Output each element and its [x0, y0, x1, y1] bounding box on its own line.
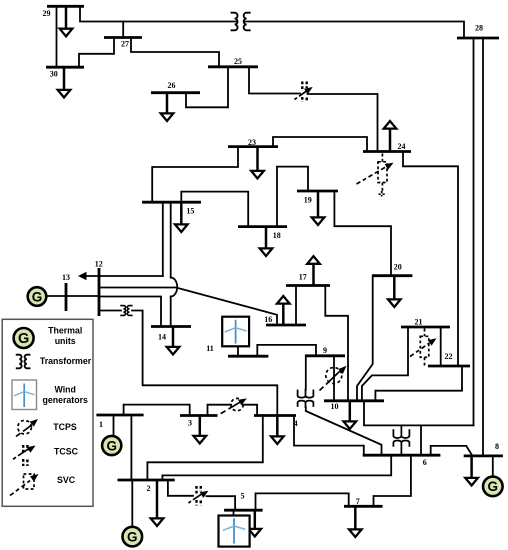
wire bus 8 to generator: [492, 456, 494, 476]
wire line 25-27: [131, 38, 219, 67]
load arrow shaft bus 23: [256, 147, 259, 171]
TCPS on line 3-4: [221, 398, 247, 413]
svg-text:SVC: SVC: [57, 475, 76, 485]
svg-text:20: 20: [394, 263, 402, 272]
load arrow shaft bus 19: [317, 191, 320, 218]
svg-text:G: G: [18, 331, 29, 347]
wire line 6-7: [374, 455, 411, 506]
load arrow shaft bus 14: [172, 327, 175, 348]
bus bar 27: [104, 36, 142, 39]
svg-text:21: 21: [415, 318, 423, 327]
load arrowhead bus 18: [260, 248, 273, 256]
svg-text:26: 26: [168, 81, 176, 90]
legend thermal generator symbol: [14, 328, 34, 348]
bus bar 29: [47, 5, 84, 8]
svg-text:7: 7: [356, 497, 360, 506]
wire line 14-15 upper segment: [170, 202, 172, 277]
wire line 2-5 left segment to TCSC: [168, 480, 193, 496]
load arrow shaft bus 20: [393, 276, 396, 300]
svg-text:G: G: [488, 479, 499, 494]
wire line 24-25 right segment to bus 24: [308, 94, 378, 152]
legend SVC symbol: [10, 474, 39, 496]
wire line 24-22: [403, 152, 458, 367]
load arrowhead bus 23: [251, 171, 264, 179]
wire line 6-28 feeder: [473, 38, 475, 425]
wire line 9-10 through TCPS: [333, 356, 335, 401]
load arrow shaft bus 5: [254, 510, 257, 529]
wire line 23-15: [152, 147, 238, 203]
svg-text:11: 11: [206, 344, 214, 353]
svg-text:6: 6: [423, 458, 427, 467]
load arrow shaft bus 30: [63, 67, 66, 90]
TCSC on line 24-25: [295, 82, 313, 103]
wire bus 5 stem to wind generator box: [233, 510, 235, 515]
wire line 27-28 left segment to transformer: [123, 21, 236, 23]
wind generator box at bus 5: [219, 516, 250, 547]
bus bar 13 vertical: [65, 283, 68, 311]
legend TCPS symbol: [16, 419, 38, 437]
load arrowhead bus 8: [465, 478, 478, 486]
load arrow shaft bus 29: [65, 6, 68, 29]
wire crossing hop arc on line 14-15: [171, 278, 178, 297]
load arrowhead bus 19: [312, 217, 325, 225]
wire line 27-28 right segment to bus 28: [244, 22, 464, 39]
svg-text:17: 17: [299, 273, 307, 282]
svg-text:22: 22: [445, 352, 453, 361]
wire line 12-4 mid segment: [132, 311, 277, 416]
bus bar 26: [151, 91, 200, 94]
load arrowhead bus 20: [388, 299, 401, 307]
wire line 12-14: [99, 297, 161, 327]
wire line 12-4 left segment to transformer: [99, 310, 121, 312]
load arrowhead bus 15: [175, 224, 188, 232]
wire line 8-28 feeder: [482, 38, 484, 456]
svg-text:24: 24: [398, 142, 406, 151]
wire line 6 riser from tie line: [420, 425, 422, 455]
wire line 12-16 horizontal then diagonal: [99, 288, 277, 326]
bus bar 12 vertical: [98, 268, 101, 316]
bus bar 11: [228, 355, 268, 358]
bus bar 8: [464, 454, 503, 457]
injection arrow shaft bus 24: [389, 129, 392, 152]
load arrowhead bus 4: [271, 436, 284, 444]
load arrowhead bus 5: [249, 529, 262, 537]
load arrowhead bus 7: [349, 529, 362, 537]
wire line 4-6: [294, 416, 364, 456]
svg-text:30: 30: [50, 70, 58, 79]
bus bar 10: [324, 399, 384, 402]
svg-text:23: 23: [248, 138, 256, 147]
svg-text:12: 12: [95, 260, 103, 269]
wire line 6-9 transformer to bus 6 diagonal: [306, 407, 382, 455]
svg-text:3: 3: [188, 419, 192, 428]
wire line 10-21 with diagonal jog: [362, 327, 408, 401]
load arrow shaft bus 26: [166, 93, 169, 114]
svg-text:25: 25: [234, 57, 242, 66]
wire line 3-4 right segment: [243, 405, 257, 416]
svg-text:5: 5: [241, 492, 245, 501]
bus bar 25: [208, 65, 258, 68]
svg-text:28: 28: [475, 23, 483, 32]
wire line 3-4 left segment to TCPS: [208, 405, 232, 416]
TCPS on line 9-10: [320, 366, 347, 391]
svg-text:15: 15: [186, 206, 194, 215]
wire bus 12 load line to left arrow: [84, 275, 163, 277]
wire line 21-22: [440, 327, 442, 366]
bus bar 15: [142, 201, 201, 204]
wire line 6-10 bus 10 to tie line: [364, 401, 474, 426]
load arrowhead bus 29: [60, 29, 73, 37]
svg-text:4: 4: [294, 419, 298, 428]
bus bar 1: [96, 414, 143, 417]
wire bus 2 to generator: [131, 480, 133, 527]
bus bar 4: [254, 414, 296, 417]
wire bus 1 to generator: [113, 415, 115, 435]
svg-text:Wind: Wind: [54, 384, 75, 394]
injection arrow shaft bus 16: [282, 304, 285, 326]
wire line 2-5 right segment to bus 5: [207, 496, 236, 510]
svg-text:14: 14: [158, 333, 166, 342]
load arrow shaft bus 8: [470, 456, 473, 478]
wire line 18-19: [277, 167, 308, 227]
bus bar 18: [238, 225, 287, 228]
svg-text:G: G: [32, 289, 43, 304]
svg-text:Thermal: Thermal: [48, 326, 82, 336]
generator G at bus 2: [123, 527, 143, 547]
bus bar 24: [363, 150, 411, 153]
injection arrowhead bus 24: [384, 121, 397, 129]
bus bar 23: [228, 145, 278, 148]
svg-text:1: 1: [99, 420, 103, 429]
wire line 1-3: [124, 405, 190, 416]
legend wind generator symbol: [12, 380, 37, 410]
transformer T12-4 on line 12-4: [120, 306, 132, 316]
SVC at bus 24: [357, 154, 394, 197]
wire line 6-8 with diagonal: [431, 446, 473, 456]
bus bar 17: [286, 284, 330, 287]
svg-text:G: G: [106, 438, 117, 453]
svg-text:18: 18: [273, 231, 281, 240]
load arrow shaft bus 7: [354, 506, 357, 529]
wire line 10-22: [375, 366, 462, 401]
TCSC on line 2-5: [189, 486, 209, 506]
svg-text:8: 8: [495, 442, 499, 451]
wire line 16-17: [295, 286, 297, 326]
load arrowhead bus 2: [151, 518, 164, 526]
svg-text:29: 29: [43, 9, 51, 18]
wire line 12-15: [162, 202, 164, 276]
generator G at bus 1: [102, 436, 121, 455]
svg-text:TCSC: TCSC: [54, 447, 79, 457]
wire line 24-25 left segment to TCSC: [249, 67, 300, 94]
wire line 6-9 bus 9 to transformer: [305, 356, 307, 390]
wind generator box at bus 11: [222, 317, 249, 347]
load arrow shaft bus 10: [349, 401, 352, 422]
load arrow shaft bus 3: [199, 416, 202, 437]
load arrowhead bus 30: [58, 90, 71, 98]
svg-text:16: 16: [264, 315, 272, 324]
bus bar 30: [46, 66, 84, 69]
svg-text:13: 13: [62, 273, 70, 282]
bus bar 21: [401, 326, 450, 329]
bus bar 28: [457, 37, 499, 40]
generator G at bus 8: [483, 477, 503, 497]
load arrowhead bus 3: [194, 436, 207, 444]
wire line 19-20: [334, 191, 391, 276]
bus bar 3: [180, 414, 218, 417]
wire line 29-27: [80, 6, 123, 37]
injection arrowhead bus 17: [307, 256, 320, 264]
load arrowhead bus 26: [161, 113, 174, 121]
svg-text:units: units: [55, 336, 76, 346]
svg-text:Transformer: Transformer: [40, 356, 92, 366]
wire line 2-4: [147, 416, 262, 481]
bus bar 6: [363, 454, 441, 457]
svg-text:TCPS: TCPS: [53, 422, 77, 432]
svg-text:19: 19: [304, 195, 312, 204]
bus bar 19: [297, 190, 338, 193]
load arrow shaft bus 4: [276, 416, 279, 437]
wire bus 11 stem to wind generator box: [237, 346, 239, 356]
wire line 23-24: [273, 137, 367, 152]
bus bar 14: [151, 325, 191, 328]
svg-text:9: 9: [323, 346, 327, 355]
wire generator line to bus 13 and bus 12: [47, 295, 100, 297]
bus bar 22: [428, 365, 470, 368]
svg-text:27: 27: [121, 39, 129, 48]
wire line 14-15 lower segment: [170, 297, 172, 327]
wire line 15-18: [181, 192, 248, 227]
wire line 5-7: [256, 493, 349, 510]
transformer T27-28 on line 27-28: [231, 13, 251, 31]
transformer T6-10 on bus 6 tie: [393, 425, 409, 455]
injection arrowhead bus 16: [277, 296, 290, 304]
wire line 25-26: [186, 67, 228, 108]
wire line 29-30: [56, 6, 58, 67]
wire line 1-2: [130, 415, 132, 480]
load arrowhead bus 14: [167, 347, 180, 355]
load arrowhead bus 10: [344, 421, 357, 429]
wire line 10-20 with diagonal jog: [357, 276, 373, 401]
legend box: [2, 319, 93, 506]
wire line 10-17: [325, 286, 348, 401]
transformer T6-9 on line 6-9: [298, 389, 314, 409]
legend TCSC symbol: [13, 445, 36, 466]
generator G at bus 13: [28, 287, 47, 306]
bus bar 16: [266, 324, 306, 327]
legend transformer symbol: [16, 355, 31, 369]
wire line 2-6: [162, 455, 391, 480]
load arrow shaft bus 15: [180, 202, 183, 224]
wire line 9-11: [257, 345, 316, 356]
svg-text:G: G: [127, 529, 138, 544]
bus bar 9: [305, 354, 345, 357]
load arrow shaft bus 18: [265, 227, 268, 249]
wire line 27-30: [79, 38, 114, 68]
bus bar 2: [118, 479, 175, 482]
svg-text:2: 2: [147, 484, 151, 493]
bus bar 5: [224, 509, 263, 512]
load arrow bus 12 pointing left (filled): [78, 272, 87, 280]
svg-text:generators: generators: [42, 395, 88, 405]
SVC between bus 21 and bus 22: [410, 329, 437, 366]
svg-text:10: 10: [331, 402, 339, 411]
load arrow shaft bus 2: [156, 480, 159, 519]
bus bar 20: [372, 274, 412, 277]
bus bar 7: [344, 505, 383, 508]
injection arrow shaft bus 17: [312, 264, 315, 286]
